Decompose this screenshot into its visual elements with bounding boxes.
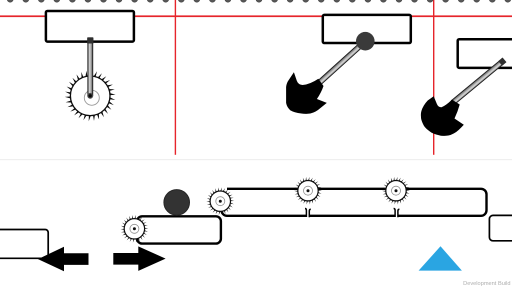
svg-text:Development Build: Development Build bbox=[463, 281, 510, 287]
